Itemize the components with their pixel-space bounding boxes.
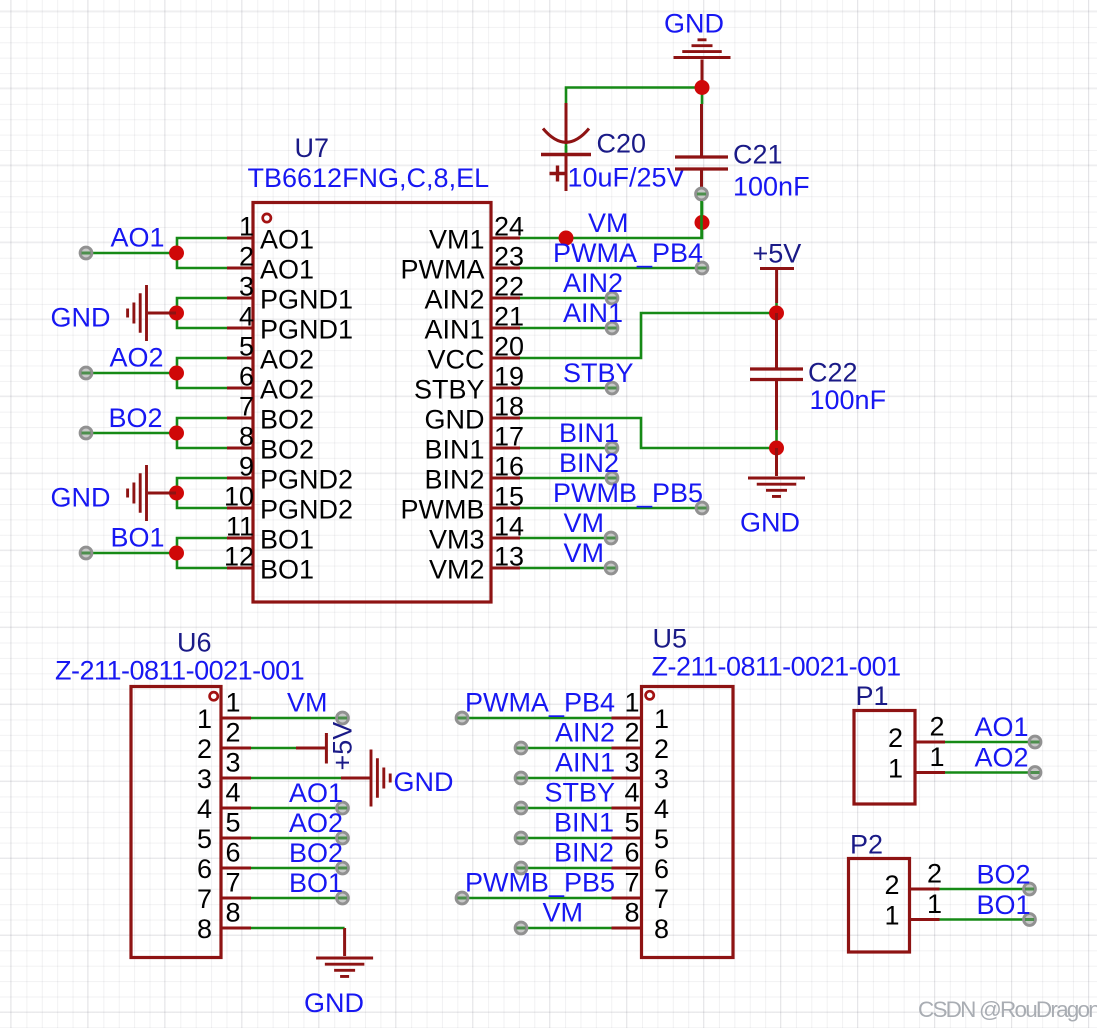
svg-text:9: 9 <box>239 452 254 482</box>
svg-text:12: 12 <box>224 542 254 572</box>
wire STBY pin <box>520 387 612 390</box>
svg-text:8: 8 <box>197 914 212 944</box>
svg-text:5: 5 <box>239 332 254 362</box>
U6 pin 8 <box>197 898 251 945</box>
U7 pin 6 (AO2) <box>227 362 314 405</box>
power +5V flag (U6, rotated) <box>296 733 326 764</box>
svg-text:U5: U5 <box>653 624 688 654</box>
svg-text:C20: C20 <box>597 129 647 159</box>
svg-text:8: 8 <box>239 422 254 452</box>
net label AIN2 (U5) <box>555 718 615 748</box>
wire U6 AO1 <box>251 807 343 810</box>
svg-text:1: 1 <box>654 704 669 734</box>
U7 pin 10 (PGND2) <box>224 482 353 525</box>
svg-text:2: 2 <box>226 718 241 748</box>
P1 pin 2 <box>888 712 945 754</box>
svg-text:VM: VM <box>564 538 605 568</box>
U7 pin 23 (PWMA) <box>401 242 525 285</box>
svg-text:GND: GND <box>304 988 364 1018</box>
svg-text:BIN2: BIN2 <box>424 465 484 495</box>
svg-text:4: 4 <box>197 794 212 824</box>
svg-text:BO2: BO2 <box>109 403 163 433</box>
svg-text:BIN2: BIN2 <box>559 448 619 478</box>
junction GND at C22 <box>769 441 784 456</box>
U5 pin 1 <box>612 688 670 735</box>
net label PWMB_PB5 (U5) <box>465 868 615 898</box>
junction GND top <box>695 80 710 95</box>
svg-text:CSDN @RouDragon: CSDN @RouDragon <box>918 997 1097 1022</box>
wire C21 to VM <box>700 201 703 238</box>
svg-text:AO1: AO1 <box>289 778 343 808</box>
svg-text:AO2: AO2 <box>110 343 164 373</box>
net label VM (U5) <box>543 898 584 928</box>
C22 value 100nF <box>810 385 887 415</box>
U5 pin 2 <box>612 718 670 765</box>
wire U6 AO2 <box>251 837 343 840</box>
svg-text:AO1: AO1 <box>111 223 165 253</box>
svg-text:10: 10 <box>224 482 254 512</box>
junction +5V <box>769 306 784 321</box>
net label GND (top) <box>664 9 724 39</box>
connector U5 body <box>642 687 734 958</box>
terminal U5 PWMB_PB5 <box>456 892 468 904</box>
svg-text:19: 19 <box>494 362 524 392</box>
svg-text:BO1: BO1 <box>111 523 165 553</box>
terminal BO1 <box>80 547 92 559</box>
terminal U5 STBY <box>515 802 527 814</box>
svg-text:STBY: STBY <box>414 375 485 405</box>
svg-text:8: 8 <box>654 914 669 944</box>
net label BO2 (P2) <box>977 860 1031 890</box>
svg-text:23: 23 <box>494 242 524 272</box>
net label STBY <box>563 358 634 388</box>
U6 pin 4 <box>197 778 251 825</box>
net label BO2 <box>109 403 163 433</box>
svg-text:1: 1 <box>624 688 639 718</box>
svg-text:7: 7 <box>197 884 212 914</box>
U6 pin-1 indicator <box>210 692 218 700</box>
net label AO1 <box>111 223 165 253</box>
U7 pin 5 (AO2) <box>227 332 314 375</box>
net label PWMA_PB4 <box>553 238 703 268</box>
svg-text:TB6612FNG,C,8,EL: TB6612FNG,C,8,EL <box>248 163 490 193</box>
P1 pin 1 <box>888 742 945 784</box>
svg-text:PWMA_PB4: PWMA_PB4 <box>465 688 615 718</box>
svg-text:21: 21 <box>494 302 524 332</box>
svg-text:AIN1: AIN1 <box>424 315 484 345</box>
capacitor C21 <box>675 104 728 187</box>
svg-text:C21: C21 <box>733 140 783 170</box>
connector P1 body <box>854 711 915 805</box>
svg-text:PGND1: PGND1 <box>260 285 353 315</box>
svg-text:1: 1 <box>226 688 241 718</box>
wire P1 pin2 AO1 <box>945 741 1035 744</box>
wire U6 pin8 to ground <box>251 927 345 930</box>
svg-text:BIN1: BIN1 <box>424 435 484 465</box>
terminal PWMB_PB5 <box>696 502 708 514</box>
svg-text:GND: GND <box>51 483 111 513</box>
svg-text:1: 1 <box>197 704 212 734</box>
U6 pin 1 <box>197 688 251 735</box>
junction node BO2 <box>169 426 184 441</box>
svg-text:6: 6 <box>226 838 241 868</box>
terminal AO2 (P1) <box>1029 767 1041 779</box>
net label BO1 (P2) <box>977 890 1031 920</box>
svg-text:Z-211-0811-0021-001: Z-211-0811-0021-001 <box>55 656 304 686</box>
terminal BO1 (P2) <box>1024 914 1036 926</box>
C20 reference designator <box>597 129 647 159</box>
svg-text:PWMB_PB5: PWMB_PB5 <box>553 478 703 508</box>
svg-text:P1: P1 <box>856 681 889 711</box>
svg-text:AO1: AO1 <box>260 225 314 255</box>
U7 pin 19 (STBY) <box>414 362 524 405</box>
U5 pin 8 <box>612 898 670 945</box>
svg-text:14: 14 <box>494 512 524 542</box>
svg-text:+5V: +5V <box>753 239 802 269</box>
net label VM (U6) <box>287 688 328 718</box>
U7 pin 16 (BIN2) <box>424 452 524 495</box>
svg-text:8: 8 <box>226 898 241 928</box>
svg-text:AO1: AO1 <box>975 712 1029 742</box>
U7 pin 18 (GND) <box>425 392 525 435</box>
U7 pin 20 (VCC) <box>427 332 524 375</box>
net label AO2 <box>110 343 164 373</box>
terminal VM <box>605 532 617 544</box>
terminal STBY <box>606 382 618 394</box>
wire U5 AIN1 <box>521 777 612 780</box>
svg-text:4: 4 <box>239 302 254 332</box>
ground GND (U6 pin3, rotated right) <box>341 750 390 807</box>
svg-text:BO1: BO1 <box>260 525 314 555</box>
net label GND (U6 pin3) <box>394 767 454 797</box>
net label BIN2 (U5) <box>554 838 614 868</box>
svg-text:PWMB: PWMB <box>401 495 485 525</box>
terminal U6 BO1 <box>337 892 349 904</box>
U7 pin 4 (PGND1) <box>227 302 353 345</box>
net label GND (below C22) <box>740 508 800 538</box>
terminal BO2 (P2) <box>1024 883 1036 895</box>
U5 pin 5 <box>612 808 670 855</box>
wire BO2 pins 7-8 to terminal <box>86 418 227 448</box>
svg-text:100nF: 100nF <box>810 385 887 415</box>
svg-text:GND: GND <box>51 303 111 333</box>
svg-text:15: 15 <box>494 482 524 512</box>
U7 pin 13 (VM2) <box>429 542 524 585</box>
svg-text:GND: GND <box>425 405 485 435</box>
U7 pin 11 (BO1) <box>226 512 314 555</box>
svg-text:6: 6 <box>197 854 212 884</box>
wire P2 pin2 BO2 <box>940 888 1030 891</box>
U5 pin 4 <box>612 778 670 825</box>
svg-text:6: 6 <box>654 854 669 884</box>
svg-text:AIN1: AIN1 <box>555 748 615 778</box>
svg-text:BO1: BO1 <box>977 890 1031 920</box>
net label VM <box>564 508 605 538</box>
svg-text:AO1: AO1 <box>260 255 314 285</box>
svg-text:BO2: BO2 <box>977 860 1031 890</box>
connector U6 body <box>131 687 221 958</box>
svg-text:2: 2 <box>239 242 254 272</box>
U7 pin 1 (AO1) <box>227 212 314 255</box>
svg-text:BO1: BO1 <box>289 868 343 898</box>
svg-text:PGND2: PGND2 <box>260 495 353 525</box>
svg-text:7: 7 <box>624 868 639 898</box>
net label AIN2 <box>563 268 623 298</box>
terminal U5 AIN2 <box>515 742 527 754</box>
U7 value TB6612FNG,C,8,EL <box>248 163 490 193</box>
net label +5V <box>753 239 802 269</box>
svg-text:13: 13 <box>494 542 524 572</box>
svg-text:PWMB_PB5: PWMB_PB5 <box>465 868 615 898</box>
junction node PGND2 <box>169 486 184 501</box>
svg-text:GND: GND <box>664 9 724 39</box>
net label BO1 <box>111 523 165 553</box>
junction VM at C20 <box>559 231 574 246</box>
terminal AO1 (P1) <box>1029 736 1041 748</box>
svg-text:1: 1 <box>239 212 254 242</box>
svg-text:18: 18 <box>494 392 524 422</box>
U6 pin 2 <box>197 718 251 765</box>
svg-text:PGND2: PGND2 <box>260 465 353 495</box>
svg-text:BO2: BO2 <box>260 405 314 435</box>
junction node AO2 <box>169 366 184 381</box>
svg-text:AO2: AO2 <box>260 375 314 405</box>
svg-text:6: 6 <box>624 838 639 868</box>
U7 pin 14 (VM3) <box>429 512 524 555</box>
svg-text:STBY: STBY <box>544 778 615 808</box>
svg-text:10uF/25V: 10uF/25V <box>568 163 685 193</box>
svg-text:U7: U7 <box>295 133 330 163</box>
wire AIN1 pin <box>520 327 612 330</box>
wire VM pin24 to C21 column <box>520 202 702 239</box>
U7 pin 24 (VM1) <box>429 212 524 255</box>
svg-text:VM2: VM2 <box>429 555 485 585</box>
capacitor C22 <box>750 313 803 430</box>
net label PWMA_PB4 (U5) <box>465 688 615 718</box>
net label GND (PGND2) <box>51 483 111 513</box>
C21 value 100nF <box>733 172 810 202</box>
svg-text:4: 4 <box>654 794 669 824</box>
net label VM <box>588 208 629 238</box>
wire U5 PWMA_PB4 <box>462 717 612 720</box>
terminal U6 AO2 <box>337 832 349 844</box>
junction node PGND1 <box>169 306 184 321</box>
U7 pin 3 (PGND1) <box>227 272 353 315</box>
svg-text:BO1: BO1 <box>260 555 314 585</box>
net label BIN1 (U5) <box>554 808 614 838</box>
U7 pin 9 (PGND2) <box>227 452 353 495</box>
power +5V flag <box>760 269 794 304</box>
P2 reference designator <box>850 830 883 860</box>
svg-text:VM: VM <box>588 208 629 238</box>
ground GND (below C22) <box>748 448 805 496</box>
svg-text:AIN1: AIN1 <box>563 298 623 328</box>
net label AO2 (P1) <box>975 743 1029 773</box>
wire U5 BIN2 <box>521 867 612 870</box>
net label +5V (U6, rotated) <box>328 722 358 771</box>
svg-text:2: 2 <box>888 723 903 753</box>
U5 value Z-211-0811-0021-001 <box>652 652 901 682</box>
terminal U5 AIN1 <box>515 772 527 784</box>
svg-text:24: 24 <box>494 212 524 242</box>
svg-text:1: 1 <box>884 901 899 931</box>
wire U5 PWMB_PB5 <box>462 897 612 900</box>
U5 pin 3 <box>612 748 670 795</box>
net label BIN1 <box>559 418 619 448</box>
svg-text:P2: P2 <box>850 830 883 860</box>
svg-text:VM: VM <box>543 898 584 928</box>
svg-text:17: 17 <box>494 422 524 452</box>
svg-text:AO2: AO2 <box>289 808 343 838</box>
U6 pin 5 <box>197 808 251 855</box>
net label AO1 (U6) <box>289 778 343 808</box>
svg-text:PWMA_PB4: PWMA_PB4 <box>553 238 703 268</box>
svg-text:3: 3 <box>226 748 241 778</box>
svg-text:BIN1: BIN1 <box>554 808 614 838</box>
wire AO2 pins 5-6 to terminal <box>86 358 227 388</box>
wire VM pin <box>520 537 611 540</box>
svg-text:GND: GND <box>740 508 800 538</box>
svg-text:5: 5 <box>654 824 669 854</box>
U6 pin 7 <box>197 868 251 915</box>
U7 pin 22 (AIN2) <box>424 272 524 315</box>
terminal U5 VM <box>515 922 527 934</box>
svg-text:6: 6 <box>239 362 254 392</box>
wire U6 BO2 <box>251 867 343 870</box>
svg-text:3: 3 <box>654 764 669 794</box>
wire VM pin <box>520 567 611 570</box>
svg-text:4: 4 <box>624 778 639 808</box>
U6 pin 6 <box>197 838 251 885</box>
wire U6 pin1 VM <box>251 717 343 720</box>
svg-text:AIN2: AIN2 <box>555 718 615 748</box>
U5 pin 7 <box>612 868 670 915</box>
terminal U5 BIN2 <box>515 862 527 874</box>
wire U6 BO1 <box>251 897 343 900</box>
svg-text:2: 2 <box>197 734 212 764</box>
P2 pin 2 <box>884 859 942 901</box>
U7 pin 21 (AIN1) <box>424 302 524 345</box>
U6 value Z-211-0811-0021-001 <box>55 656 304 686</box>
wire P2 pin1 BO1 <box>940 918 1030 921</box>
terminal PWMA_PB4 <box>696 262 708 274</box>
svg-text:4: 4 <box>226 778 241 808</box>
wire +5V rail from pin20 <box>520 303 777 358</box>
U7 pin 8 (BO2) <box>227 422 314 465</box>
svg-text:BO2: BO2 <box>289 838 343 868</box>
wire U5 VM <box>521 927 612 930</box>
C21 bottom terminal <box>696 188 708 200</box>
U6 pin 3 <box>197 748 251 795</box>
U5 reference designator <box>653 624 688 654</box>
U6 reference designator <box>177 628 212 658</box>
C21 reference designator <box>733 140 783 170</box>
net label STBY (U5) <box>544 778 615 808</box>
wire GND rail from pin18 <box>520 418 777 448</box>
U5 pin-1 indicator <box>646 691 654 699</box>
svg-text:BO2: BO2 <box>260 435 314 465</box>
svg-text:2: 2 <box>927 859 942 889</box>
wire BO1 pins 11-12 to terminal <box>86 538 227 568</box>
terminal U6 VM <box>337 712 349 724</box>
net label VM <box>564 538 605 568</box>
junction VM at C21 <box>695 215 710 230</box>
watermark CSDN @RouDragon <box>918 997 1097 1022</box>
svg-text:VM3: VM3 <box>429 525 485 555</box>
svg-text:AIN2: AIN2 <box>563 268 623 298</box>
net label BO2 (U6) <box>289 838 343 868</box>
wire P1 pin1 AO2 <box>945 771 1035 774</box>
P2 pin 1 <box>884 889 942 931</box>
svg-text:100nF: 100nF <box>733 172 810 202</box>
svg-text:7: 7 <box>226 868 241 898</box>
svg-text:VM1: VM1 <box>429 225 485 255</box>
terminal BO2 <box>80 427 92 439</box>
wire PGND2 pins 9-10 <box>177 478 227 508</box>
op IC U7 chip body <box>253 203 491 603</box>
wire U5 STBY <box>521 807 612 810</box>
svg-text:5: 5 <box>624 808 639 838</box>
wire U6 pin3 GND <box>251 777 342 780</box>
wire GND top rail <box>566 88 702 192</box>
svg-text:AO2: AO2 <box>975 743 1029 773</box>
net label AIN1 (U5) <box>555 748 615 778</box>
ground GND (PGND1) <box>128 285 176 341</box>
svg-text:2: 2 <box>884 870 899 900</box>
svg-text:16: 16 <box>494 452 524 482</box>
net label GND (U6 pin8) <box>304 988 364 1018</box>
svg-text:3: 3 <box>624 748 639 778</box>
net label BIN2 <box>559 448 619 478</box>
wire BIN2 pin <box>520 477 612 480</box>
terminal VM <box>605 562 617 574</box>
svg-text:PGND1: PGND1 <box>260 315 353 345</box>
svg-text:5: 5 <box>226 808 241 838</box>
svg-text:5: 5 <box>197 824 212 854</box>
wire U5 AIN2 <box>521 747 612 750</box>
wire BIN1 pin <box>520 447 612 450</box>
svg-text:11: 11 <box>226 512 254 542</box>
terminal U5 BIN1 <box>515 832 527 844</box>
U7 pin 7 (BO2) <box>227 392 314 435</box>
wire PWMB_PB5 pin <box>520 507 702 510</box>
wire U5 BIN1 <box>521 837 612 840</box>
terminal U5 PWMA_PB4 <box>456 712 468 724</box>
terminal U6 AO1 <box>337 802 349 814</box>
terminal AO1 <box>80 247 92 259</box>
svg-text:2: 2 <box>624 718 639 748</box>
svg-text:1: 1 <box>927 889 942 919</box>
svg-text:8: 8 <box>624 898 639 928</box>
svg-text:GND: GND <box>394 767 454 797</box>
svg-text:22: 22 <box>494 272 524 302</box>
svg-text:7: 7 <box>654 884 669 914</box>
connector P2 body <box>849 859 910 953</box>
svg-text:+5V: +5V <box>328 722 358 771</box>
svg-text:AIN2: AIN2 <box>424 285 484 315</box>
terminal U6 BO2 <box>337 862 349 874</box>
svg-text:Z-211-0811-0021-001: Z-211-0811-0021-001 <box>652 652 901 682</box>
U7 pin 2 (AO1) <box>227 242 314 285</box>
wire AO1 pins 1-2 to terminal <box>86 238 227 268</box>
svg-text:STBY: STBY <box>563 358 634 388</box>
wire PGND1 pins 3-4 <box>177 298 227 328</box>
P1 reference designator <box>856 681 889 711</box>
svg-text:BIN1: BIN1 <box>559 418 619 448</box>
svg-text:C22: C22 <box>808 358 858 388</box>
U5 pin 6 <box>612 838 670 885</box>
terminal BIN2 <box>606 472 618 484</box>
